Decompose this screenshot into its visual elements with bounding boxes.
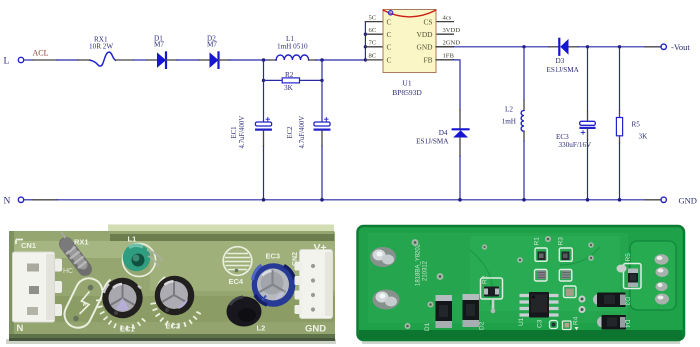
svg-text:D2: D2 bbox=[479, 321, 486, 330]
svg-text:D4: D4 bbox=[624, 320, 631, 329]
svg-text:U1: U1 bbox=[402, 79, 411, 88]
resistor R5 bbox=[616, 47, 648, 200]
resistor R3 smd bbox=[558, 237, 573, 261]
solder joint CN1 pins top bbox=[370, 247, 396, 267]
wire FB net bbox=[436, 60, 460, 128]
svg-text:L: L bbox=[4, 57, 10, 67]
connector CN1 bbox=[13, 240, 63, 335]
svg-text:EC1: EC1 bbox=[231, 126, 238, 138]
svg-text:M7: M7 bbox=[207, 41, 217, 49]
wire bbox=[229, 59, 269, 61]
terminal L bbox=[4, 57, 24, 67]
svg-text:4.7uF/400V: 4.7uF/400V bbox=[239, 116, 246, 149]
svg-text:-Vout: -Vout bbox=[671, 42, 690, 52]
right PCB board photo bbox=[358, 226, 685, 344]
inductor L2 bbox=[502, 47, 524, 200]
capacitor EC1 bbox=[231, 116, 272, 200]
svg-text:ES1J/SMA: ES1J/SMA bbox=[416, 138, 449, 146]
smd below R1 bbox=[535, 270, 548, 282]
silkscreen EC4 footprint bbox=[223, 247, 252, 286]
diode D3 smd bbox=[593, 293, 631, 308]
resistor RX1 photo bbox=[60, 232, 89, 275]
resistor RX1 bbox=[78, 36, 133, 67]
svg-text:EC1: EC1 bbox=[120, 325, 135, 334]
left PCB board photo bbox=[6, 225, 336, 345]
svg-text:L2: L2 bbox=[257, 324, 266, 333]
svg-text:R2: R2 bbox=[285, 71, 294, 79]
resistor R5 smd bbox=[617, 253, 642, 289]
inductor L1 bbox=[269, 35, 316, 60]
svg-text:R1: R1 bbox=[534, 237, 541, 246]
capacitor EC1 photo bbox=[96, 278, 145, 334]
svg-text:CS: CS bbox=[423, 17, 432, 26]
svg-text:GND: GND bbox=[679, 195, 697, 205]
node A junction bbox=[262, 58, 266, 62]
svg-text:GND: GND bbox=[416, 43, 433, 52]
svg-text:1mH: 1mH bbox=[502, 118, 516, 126]
svg-text:C3: C3 bbox=[537, 319, 544, 328]
op-amp U1 body bbox=[383, 10, 436, 98]
svg-text:C: C bbox=[387, 56, 392, 65]
terminal N bbox=[4, 196, 24, 206]
silkscreen RX1 footprint bbox=[60, 274, 107, 333]
svg-text:EC2: EC2 bbox=[166, 322, 181, 331]
svg-text:M7: M7 bbox=[154, 41, 164, 49]
svg-text:D3: D3 bbox=[556, 57, 565, 65]
svg-text:D1: D1 bbox=[424, 322, 431, 331]
via holes bbox=[405, 236, 594, 329]
connector CN2 bbox=[295, 242, 333, 335]
svg-text:7C: 7C bbox=[369, 40, 377, 47]
svg-text:D4: D4 bbox=[439, 129, 448, 137]
terminal -Vout bbox=[661, 42, 690, 52]
diode D4 smd bbox=[597, 315, 631, 330]
svg-text:EC3: EC3 bbox=[266, 252, 281, 261]
svg-text:RX1: RX1 bbox=[74, 238, 89, 247]
diode D3 bbox=[547, 39, 580, 74]
svg-text:ACL: ACL bbox=[33, 49, 49, 58]
op-amp U1 pins left bbox=[365, 14, 383, 60]
svg-text:N: N bbox=[4, 196, 11, 206]
wire pin bus bbox=[364, 22, 367, 62]
smd below R3 bbox=[559, 270, 572, 282]
inductor L1 photo bbox=[123, 235, 163, 277]
svg-text:EC4: EC4 bbox=[229, 277, 244, 286]
op-amp U1 pins right bbox=[436, 14, 460, 60]
small passives center bbox=[550, 286, 586, 331]
svg-text:EC2: EC2 bbox=[287, 126, 294, 139]
svg-text:210312: 210312 bbox=[423, 260, 429, 281]
silkscreen board id text bbox=[416, 243, 429, 286]
IC U1 soic8 bbox=[518, 292, 559, 328]
svg-text:4cs: 4cs bbox=[443, 14, 452, 21]
node B junction bbox=[320, 58, 324, 62]
svg-text:8C: 8C bbox=[369, 53, 377, 60]
svg-text:R2: R2 bbox=[482, 275, 489, 284]
svg-text:GND: GND bbox=[305, 324, 326, 335]
capacitor EC2 photo bbox=[151, 276, 201, 331]
svg-text:L2: L2 bbox=[505, 106, 513, 114]
svg-text:3K: 3K bbox=[284, 84, 294, 92]
capacitor EC3 photo bbox=[252, 252, 299, 307]
svg-text:330uF/16V: 330uF/16V bbox=[559, 141, 593, 149]
terminal GND bbox=[661, 195, 697, 205]
svg-text:V+: V+ bbox=[314, 242, 327, 254]
wire bbox=[133, 59, 147, 61]
wire L rail bbox=[24, 59, 78, 61]
svg-text:R3: R3 bbox=[558, 237, 565, 246]
svg-text:1mH 0510: 1mH 0510 bbox=[277, 43, 308, 51]
diode D1 bbox=[147, 35, 177, 68]
capacitor EC2 bbox=[287, 60, 330, 200]
wire N rail bbox=[24, 198, 661, 202]
svg-text:2GND: 2GND bbox=[443, 40, 461, 47]
svg-text:U1: U1 bbox=[518, 317, 525, 326]
wire bbox=[316, 59, 365, 61]
resistor R2 smd bbox=[481, 275, 503, 313]
PCBS bbox=[6, 225, 684, 345]
diode D2 bbox=[199, 35, 229, 68]
svg-text:EC3: EC3 bbox=[556, 133, 569, 141]
diode D4 bbox=[416, 129, 468, 200]
svg-text:N: N bbox=[17, 323, 24, 334]
svg-text:1818BA_Y8202: 1818BA_Y8202 bbox=[416, 243, 422, 286]
svg-text:C: C bbox=[387, 43, 392, 52]
svg-text:BP8593D: BP8593D bbox=[392, 88, 422, 97]
diode D1 smd bbox=[424, 295, 452, 331]
capacitor EC3 bbox=[556, 47, 595, 200]
diode D2 smd bbox=[463, 294, 486, 330]
svg-text:HC: HC bbox=[63, 268, 73, 275]
wire bbox=[177, 59, 199, 61]
svg-text:CN1: CN1 bbox=[21, 241, 36, 250]
svg-text:C: C bbox=[387, 30, 392, 39]
svg-text:3VDD: 3VDD bbox=[443, 27, 461, 34]
resistor R1 smd bbox=[534, 237, 548, 261]
svg-text:D3: D3 bbox=[624, 297, 631, 306]
svg-text:1FB: 1FB bbox=[443, 53, 455, 60]
svg-text:R5: R5 bbox=[632, 120, 641, 128]
svg-text:6C: 6C bbox=[369, 27, 377, 34]
svg-text:L1: L1 bbox=[128, 235, 137, 244]
svg-text:10R 2W: 10R 2W bbox=[89, 43, 113, 51]
svg-text:R5: R5 bbox=[625, 253, 632, 262]
svg-text:FB: FB bbox=[423, 56, 432, 65]
svg-text:C: C bbox=[387, 17, 392, 26]
solder joint CN1 pins bottom bbox=[373, 290, 400, 310]
wire GND net to Vout bbox=[436, 45, 661, 48]
svg-text:ES1J/SMA: ES1J/SMA bbox=[547, 66, 580, 74]
svg-text:4.7uF/400V: 4.7uF/400V bbox=[299, 116, 306, 149]
resistor R2 bbox=[282, 71, 299, 92]
inductor L2 photo bbox=[227, 297, 266, 333]
svg-text:5C: 5C bbox=[369, 14, 377, 21]
solder pads CN2 back bbox=[655, 254, 670, 304]
svg-text:VDD: VDD bbox=[416, 30, 433, 39]
svg-text:3K: 3K bbox=[639, 132, 649, 140]
svg-text:R4: R4 bbox=[573, 316, 580, 325]
wire R2 branch bbox=[262, 60, 324, 122]
